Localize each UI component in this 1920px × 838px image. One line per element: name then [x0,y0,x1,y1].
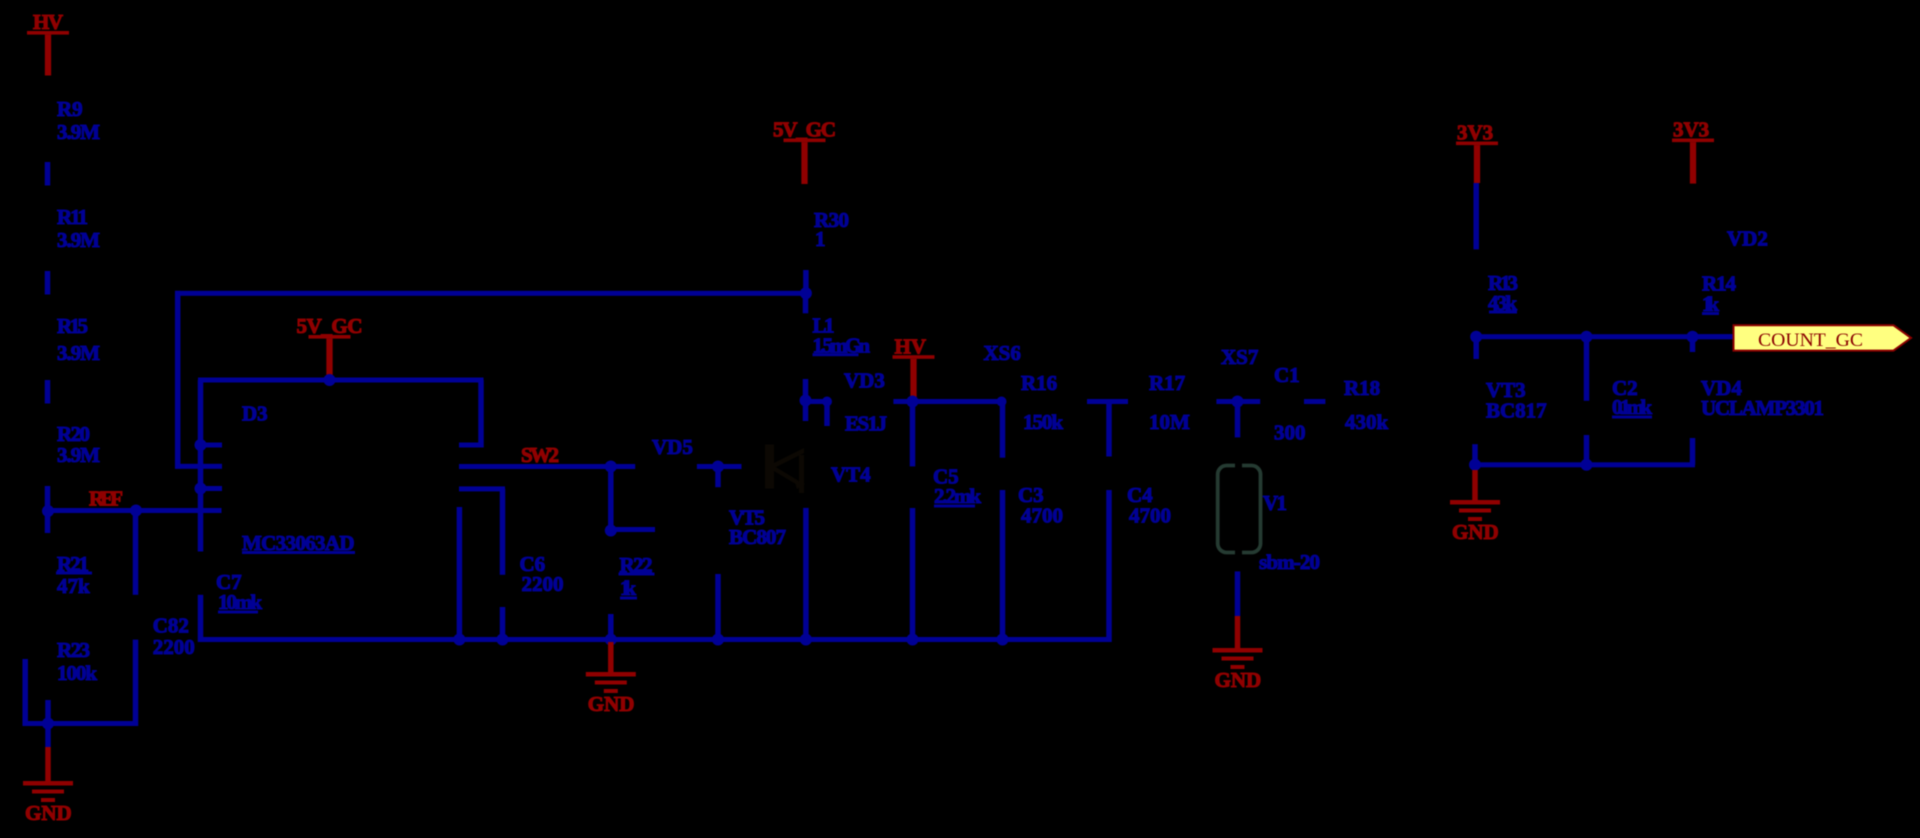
svg-text:VD5: VD5 [652,435,693,459]
svg-text:ES1J: ES1J [845,412,887,436]
svg-text:HV: HV [895,335,927,359]
capacitor C5 [910,402,916,467]
wire [45,271,51,295]
ic D3 pin 7 [201,443,223,448]
svg-text:UCLAMP3301: UCLAMP3301 [1701,396,1824,420]
node REF junction [42,505,54,517]
wire [803,399,830,404]
svg-text:4700: 4700 [1129,504,1171,528]
node junction [907,396,919,408]
transistor VT3 [1473,337,1479,359]
svg-text:C1: C1 [1274,363,1300,387]
wire [1216,399,1260,404]
svg-text:REF: REF [89,487,123,511]
wire [611,527,655,532]
node junction [195,483,207,495]
wire [1087,399,1128,404]
svg-text:R23: R23 [57,638,90,662]
node junction [1470,331,1482,343]
diode VD3 [824,402,830,427]
node junction [195,439,207,451]
node junction [605,634,617,646]
wire REF [48,508,222,513]
wire [198,378,484,383]
node junction [822,397,832,407]
node junction [800,287,812,299]
wire [45,486,51,533]
transistor VT4 symbol [765,445,774,489]
svg-text:SW2: SW2 [521,443,559,467]
node junction [907,634,919,646]
node junction [800,634,812,646]
ground GND [45,747,51,781]
node junction [130,505,142,517]
ground GND [1472,470,1478,500]
svg-text:3V3: 3V3 [1673,118,1709,142]
node junction [800,395,812,407]
wire [198,380,204,552]
svg-text:XS6: XS6 [984,341,1021,365]
svg-text:GND: GND [1215,668,1262,692]
wire [1235,571,1241,616]
wire [478,380,484,448]
svg-text:3V3: 3V3 [1457,121,1493,145]
wire [45,380,51,404]
wire [175,291,181,469]
ic D3 pin 8 [201,486,223,491]
inductor L1 [803,293,809,313]
svg-text:0.1mk: 0.1mk [1612,395,1652,419]
wire [45,162,51,186]
node junction [712,461,724,473]
svg-text:3.9M: 3.9M [57,228,100,252]
svg-text:5V_GC: 5V_GC [297,314,363,338]
svg-text:BC807: BC807 [729,525,786,549]
svg-text:150k: 150k [1023,410,1063,434]
node junction [1687,331,1699,343]
wire [1693,334,1735,339]
node junction [605,461,617,473]
svg-text:GND: GND [1452,520,1499,544]
wire [22,659,28,726]
capacitor C3 [997,397,1007,407]
svg-text:3.9M: 3.9M [57,443,100,467]
wire [457,507,463,640]
wire [45,700,51,747]
svg-text:VT4: VT4 [831,463,871,487]
svg-text:10M: 10M [1149,410,1190,434]
geiger tube V1 [1218,466,1261,553]
node junction [42,718,54,730]
svg-text:COUNT_GC: COUNT_GC [1758,330,1863,351]
svg-text:3.9M: 3.9M [57,341,100,365]
svg-text:V1: V1 [1263,491,1287,515]
node junction [712,634,724,646]
svg-text:GND: GND [588,692,635,716]
capacitor C4 [1106,402,1112,457]
node junction [1581,459,1593,471]
node junction [497,634,509,646]
svg-text:R17: R17 [1149,371,1185,395]
wire [1473,462,1696,467]
wire [175,291,808,296]
diode VD4 [1690,341,1696,352]
svg-text:XS7: XS7 [1221,345,1258,369]
wire COUNT_GC [1476,334,1741,339]
capacitor C7 [198,595,204,642]
svg-text:R18: R18 [1344,376,1380,400]
svg-text:47k: 47k [57,574,90,598]
wire [1304,399,1325,404]
capacitor C82 [133,511,139,595]
resistor R22 [608,467,614,531]
svg-text:VD2: VD2 [1727,227,1768,251]
node junction [605,525,617,537]
svg-text:VD3: VD3 [844,369,885,393]
capacitor C6 [459,486,505,491]
svg-text:1k: 1k [620,576,636,600]
node junction [1232,396,1244,408]
svg-text:R15: R15 [57,314,88,338]
node junction [453,634,465,646]
svg-text:C82: C82 [153,614,189,638]
wire [23,721,138,726]
node junction [997,634,1009,646]
svg-text:100k: 100k [57,661,97,685]
svg-text:3.9M: 3.9M [57,120,100,144]
svg-text:5V_GC: 5V_GC [773,118,836,142]
svg-text:2200: 2200 [153,635,195,659]
ground GND [608,642,614,672]
svg-text:2200: 2200 [522,572,564,596]
svg-text:BC817: BC817 [1486,399,1547,423]
wire GND rail [198,637,1112,642]
capacitor C2 [1584,341,1590,401]
svg-text:GND: GND [25,801,72,825]
resistor R13 [1473,183,1479,249]
svg-text:R11: R11 [57,205,88,229]
ground GND [1235,616,1241,648]
svg-text:430k: 430k [1345,410,1389,434]
transistor VT5 [715,467,721,488]
node junction [1581,331,1593,343]
svg-text:1: 1 [815,227,826,251]
svg-text:D3: D3 [242,402,268,426]
wire SW2 [459,464,635,469]
diode VD5 [697,464,742,469]
svg-text:R16: R16 [1021,371,1057,395]
wire [893,399,1005,404]
node junction [1469,459,1481,471]
svg-text:10mk: 10mk [218,590,262,614]
svg-text:4700: 4700 [1021,504,1063,528]
svg-text:HV: HV [33,10,63,34]
node junction [324,374,336,386]
net flag COUNT_GC [1734,325,1912,350]
svg-text:300: 300 [1274,421,1306,445]
svg-text:2.2mk: 2.2mk [934,484,981,508]
svg-text:R9: R9 [57,97,83,121]
svg-text:sbm-20: sbm-20 [1259,550,1320,574]
